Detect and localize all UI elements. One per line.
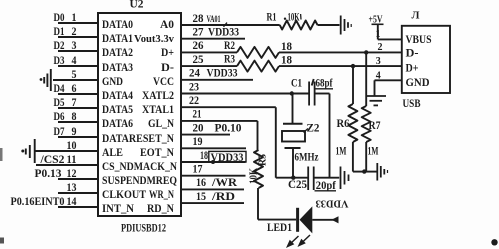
capacitor C25 plates (307, 167, 309, 191)
svg-text:DATA1: DATA1 (102, 33, 133, 45)
wire pin 27 (181, 38, 245, 40)
svg-text:VBUS: VBUS (406, 34, 432, 46)
svg-text:D-: D- (161, 62, 174, 74)
svg-text:15: 15 (196, 191, 206, 203)
+5V underline (372, 23, 384, 25)
svg-text:P0.13: P0.13 (35, 168, 62, 180)
junction dot R6/R7 (362, 169, 366, 173)
arrowhead at LED wire end (332, 216, 339, 223)
wire pin 19 (181, 147, 246, 149)
svg-text:/WR: /WR (211, 177, 238, 189)
wire +5V down (USB pin 1) (377, 24, 379, 39)
junction dot on pin 18 wire (211, 160, 215, 164)
svg-text:C1: C1 (291, 78, 302, 90)
svg-text:3: 3 (376, 56, 381, 67)
LED emission arrow 2 (299, 235, 310, 246)
underline under 68pf (315, 88, 334, 90)
wire left pin 13 (58, 192, 98, 194)
wire R3 to USB D+ (pin 3) (279, 65, 402, 67)
resistor R3 zigzag (237, 61, 279, 72)
svg-text:D2: D2 (54, 40, 65, 52)
svg-text:28: 28 (193, 13, 204, 25)
ground right of R1 (sideways) (341, 16, 352, 35)
svg-text:Л: Л (412, 11, 420, 22)
junction dot D- / R7 (364, 50, 368, 54)
svg-text:D-: D- (406, 48, 419, 60)
svg-text:DATA2: DATA2 (102, 47, 133, 59)
svg-text:D6: D6 (54, 111, 65, 123)
svg-text:9: 9 (72, 126, 77, 138)
svg-text:68pf: 68pf (316, 78, 333, 90)
svg-text:6: 6 (72, 83, 77, 95)
svg-text:A0: A0 (160, 19, 174, 31)
IC U2 PDIUSBD12 body (98, 13, 181, 216)
underline under 20pf (315, 190, 337, 192)
small tick artifact on pin 28 wire (224, 23, 228, 27)
resistor R6 zigzag (vertical) (348, 104, 357, 142)
crystal Z2 leader tick (304, 129, 309, 133)
wire left pin 11 (36, 164, 98, 166)
svg-text:Vout3.3v: Vout3.3v (134, 34, 174, 45)
wire left pin 1 (58, 22, 98, 24)
wire pin 15 (181, 202, 244, 204)
svg-text:VCC: VCC (153, 76, 174, 88)
wire crystal bottom stub (292, 148, 294, 178)
svg-text:6MHz: 6MHz (295, 152, 319, 164)
resistor R1 zigzag (280, 21, 318, 30)
wire left pin 6 (58, 93, 98, 95)
svg-text:CS_NDMACK_N: CS_NDMACK_N (102, 161, 178, 173)
wire left pin 12 (58, 178, 98, 180)
wire pin 22 down (275, 107, 277, 178)
svg-text:U2: U2 (130, 0, 144, 11)
svg-text:24: 24 (189, 68, 200, 80)
svg-text:GND: GND (102, 76, 123, 88)
wire R2 to USB D- (pin 2) (279, 51, 402, 53)
svg-text:/RD: /RD (211, 191, 235, 203)
wire bottom rail right segment to ground (314, 177, 340, 179)
junction dot D+ / R6 (351, 64, 355, 68)
svg-text:19: 19 (193, 136, 203, 148)
svg-text:VDD33: VDD33 (208, 27, 239, 39)
wire pin 17 (181, 175, 246, 177)
tick after 10K (300, 14, 302, 20)
svg-text:D5: D5 (54, 97, 65, 109)
svg-text:INT_N: INT_N (102, 203, 135, 215)
resistor R7 zigzag (vertical) (362, 106, 371, 142)
junction dot crystal top (290, 91, 294, 95)
wire crystal top stub (292, 94, 294, 124)
wire left pin 5 (53, 79, 98, 81)
svg-text:R7: R7 (369, 120, 381, 132)
svg-text:R6: R6 (337, 118, 350, 130)
svg-text:/CS2: /CS2 (39, 154, 64, 166)
svg-text:ALE: ALE (102, 147, 123, 159)
svg-text:16: 16 (196, 177, 206, 189)
wire into VBUS (378, 38, 402, 40)
svg-text:R5: R5 (258, 154, 269, 166)
svg-text:DATARESET_N: DATARESET_N (102, 133, 175, 145)
scan artifact left edge mark (0, 148, 3, 161)
wire D+ junction down to R6 (352, 66, 354, 104)
svg-text:DATA5: DATA5 (102, 104, 133, 116)
wire USB pin 4 GND stub (375, 79, 402, 81)
svg-text:VDD33: VDD33 (211, 152, 244, 164)
svg-text:D7: D7 (54, 126, 65, 138)
svg-text:10: 10 (67, 140, 77, 152)
wire D- junction down to R7 (365, 52, 367, 106)
wire C1 right to corner (315, 93, 330, 95)
svg-text:D0: D0 (54, 12, 65, 24)
wire pin 21 down to R5 (257, 121, 259, 150)
svg-text:D+: D+ (406, 63, 419, 75)
svg-text:DATA4: DATA4 (102, 90, 133, 102)
svg-text:R3: R3 (224, 54, 235, 66)
ground below USB pin 4 (366, 96, 387, 105)
wire left pin 2 (58, 36, 98, 38)
wire bottom rail left segment (276, 177, 308, 179)
ground at pin 10 (26, 139, 35, 163)
svg-text:21: 21 (193, 109, 202, 121)
wire USB pin 4 down (374, 80, 376, 95)
svg-text:P0.16EINT0: P0.16EINT0 (11, 196, 65, 208)
svg-text:18: 18 (200, 150, 208, 162)
svg-text:VA01: VA01 (207, 14, 221, 24)
wire left pin 7 (58, 107, 98, 109)
svg-text:23: 23 (189, 81, 199, 93)
svg-text:P0.10: P0.10 (215, 122, 242, 134)
wire pin 24 (181, 79, 253, 81)
junction dot crystal bottom (291, 176, 295, 180)
svg-text:USB: USB (403, 98, 421, 110)
svg-text:2: 2 (378, 42, 383, 53)
svg-text:WR_N: WR_N (149, 189, 175, 201)
wire R7 bottom down (365, 142, 367, 172)
wire R5 down to LED row (257, 188, 259, 220)
svg-text:18: 18 (281, 55, 292, 67)
wire R6 to junction (353, 171, 364, 173)
wire left pin 4 (58, 65, 98, 67)
svg-text:VDD33: VDD33 (207, 68, 238, 80)
crystal Z2 body (282, 131, 305, 142)
capacitor C1 plates (308, 82, 310, 106)
svg-text:2: 2 (72, 26, 77, 38)
svg-text:1: 1 (72, 12, 77, 24)
svg-text:8: 8 (72, 111, 77, 123)
wire pin 21 right (181, 120, 258, 122)
svg-text:DATA0: DATA0 (102, 19, 133, 31)
wire down from C1 to ground rail (329, 94, 331, 178)
wire pin 22 right (181, 106, 276, 108)
LED1 cathode bar (296, 208, 299, 232)
LED emission arrow 1 (288, 236, 299, 247)
wire pin 23 to C1 (181, 93, 309, 95)
wire pin 16 (181, 188, 244, 190)
svg-text:RD_N: RD_N (147, 203, 175, 215)
wire left pin 9 (58, 136, 98, 138)
svg-text:1M: 1M (368, 146, 379, 158)
svg-text:D1: D1 (54, 26, 65, 38)
crystal Z2 top plate (283, 123, 303, 125)
svg-text:R2: R2 (224, 40, 235, 52)
wire to LED anode (258, 219, 296, 221)
box around VDD33 net label (209, 151, 246, 162)
wire LED to VDD33 (312, 219, 338, 221)
LED1 triangle (300, 206, 313, 233)
wire pin 28 to R1 (181, 24, 280, 26)
svg-text:3: 3 (72, 40, 77, 52)
svg-text:1: 1 (376, 29, 381, 40)
svg-text:DATA3: DATA3 (102, 62, 133, 74)
svg-text:12: 12 (67, 168, 77, 180)
wire R6 bottom down (352, 142, 354, 172)
wire left pin 10 (36, 150, 99, 152)
ground at pin 5 GND (44, 69, 51, 91)
scan artifact bottom right dot (491, 239, 497, 245)
svg-text:14: 14 (67, 196, 77, 208)
wire R1 to ground (318, 24, 340, 26)
svg-text:SUSPENDMREQ: SUSPENDMREQ (102, 175, 177, 187)
svg-text:27: 27 (193, 27, 204, 39)
svg-text:10K: 10K (249, 168, 260, 184)
svg-text:13: 13 (67, 182, 77, 194)
wire junction to ground (364, 171, 376, 173)
wire left pin 14 (58, 206, 98, 208)
tick before 68pf (312, 79, 314, 86)
svg-text:D3: D3 (54, 55, 65, 67)
wire pin 20 (181, 134, 230, 136)
svg-text:GL_N: GL_N (148, 118, 175, 130)
svg-text:LED1: LED1 (267, 222, 292, 234)
scan artifact bottom left mark (0, 238, 4, 244)
svg-text:10K: 10K (288, 12, 300, 24)
svg-text:22: 22 (189, 95, 199, 107)
svg-text:17: 17 (193, 164, 203, 176)
speck between R1 and 10K (284, 18, 286, 20)
wire pin 26 to R2 (181, 51, 237, 53)
crystal Z2 bottom plate (285, 147, 301, 149)
svg-text:VDD33: VDD33 (316, 198, 349, 209)
ground for crystal caps (sideways) (341, 167, 349, 190)
svg-text:DATA6: DATA6 (102, 118, 133, 130)
svg-text:5: 5 (72, 69, 77, 81)
svg-text:18: 18 (281, 41, 292, 53)
ground for R6/R7 (sideways) (377, 163, 387, 181)
svg-text:25: 25 (193, 54, 204, 66)
wire left pin 8 (58, 121, 98, 123)
svg-text:4: 4 (72, 55, 77, 67)
svg-text:7: 7 (72, 97, 77, 109)
svg-text:XTAL1: XTAL1 (142, 104, 174, 116)
svg-text:20: 20 (193, 122, 204, 134)
svg-text:GND: GND (406, 77, 430, 89)
resistor R5 zigzag (vertical) (254, 150, 263, 188)
svg-text:XATL2: XATL2 (142, 90, 174, 102)
wire left pin 3 (58, 50, 98, 52)
wire pin 18 (181, 161, 246, 163)
resistor R2 zigzag (237, 47, 279, 58)
svg-text:PDIUSBD12: PDIUSBD12 (121, 223, 166, 235)
USB connector J1 body (402, 26, 450, 93)
svg-text:C25: C25 (288, 179, 307, 191)
svg-text:11: 11 (67, 154, 77, 166)
svg-text:26: 26 (193, 40, 204, 52)
svg-text:CLKOUT: CLKOUT (102, 189, 146, 201)
svg-text:Z2: Z2 (307, 122, 320, 134)
svg-text:1M: 1M (336, 146, 347, 158)
svg-text:D+: D+ (161, 47, 174, 59)
svg-text:EOT_N: EOT_N (140, 147, 175, 159)
svg-text:R1: R1 (267, 12, 277, 24)
svg-text:D4: D4 (54, 83, 65, 95)
wire pin 25 to R3 (181, 65, 237, 67)
